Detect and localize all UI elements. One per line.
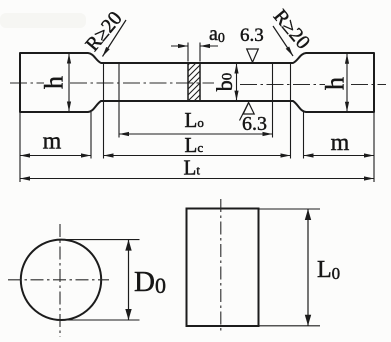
L0 extension lines xyxy=(259,208,321,210)
leader arrow R left xyxy=(103,20,127,57)
circle centerline vertical xyxy=(59,224,61,337)
svg-text:6.3: 6.3 xyxy=(242,113,267,135)
Lc extension lines xyxy=(103,63,105,159)
roughness symbol top (apex-down triangle) xyxy=(247,49,259,62)
dimension Lo line xyxy=(119,133,273,135)
section strip hatch xyxy=(183,43,210,118)
svg-text:m: m xyxy=(331,130,350,156)
svg-text:h: h xyxy=(321,77,350,90)
D0 extension lines xyxy=(60,239,140,241)
dimension m left line xyxy=(20,155,91,157)
svg-text:h: h xyxy=(40,76,69,89)
svg-text:6.3: 6.3 xyxy=(240,25,264,46)
rectangle centerline vertical xyxy=(220,199,222,334)
Lt extension lines xyxy=(19,112,21,182)
dimension a0: extension lines xyxy=(187,43,189,62)
dimension h left: arrows xyxy=(67,54,71,64)
circle centerline horizontal xyxy=(8,279,109,281)
leader arrow R right xyxy=(273,26,293,56)
centerline: specimen horizontal axis xyxy=(10,82,44,84)
dimension Lc line xyxy=(104,155,291,157)
dimension h right: line xyxy=(346,54,348,112)
round specimen circle xyxy=(21,240,101,320)
dimension D0 line xyxy=(128,240,130,320)
round specimen side view rectangle xyxy=(187,209,259,327)
dimension h left: line xyxy=(68,54,70,112)
svg-text:m: m xyxy=(43,129,62,155)
m right extension xyxy=(303,112,305,159)
specimen outline (flat dog-bone) xyxy=(20,53,374,112)
dimension a0: arrow segments xyxy=(171,45,188,47)
dimension m right line xyxy=(304,155,375,157)
dimension h right: arrows xyxy=(345,54,349,64)
dimension b0: arrows xyxy=(234,64,238,74)
dimension Lt line xyxy=(20,178,374,180)
dimension b0: line xyxy=(236,64,238,101)
m left extension xyxy=(90,112,92,159)
dimension L0 line xyxy=(307,209,309,326)
roughness symbol bottom (apex-up with tail) xyxy=(243,103,254,115)
Lo extension lines xyxy=(118,63,120,138)
